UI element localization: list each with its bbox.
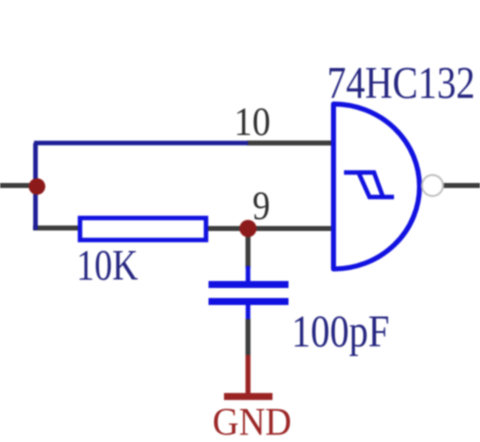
svg-text:9: 9 [253,183,271,228]
svg-text:74HC132: 74HC132 [327,58,475,108]
svg-text:10: 10 [234,99,271,144]
svg-text:10K: 10K [77,243,139,290]
svg-text:GND: GND [213,400,292,442]
svg-text:100pF: 100pF [292,307,390,357]
